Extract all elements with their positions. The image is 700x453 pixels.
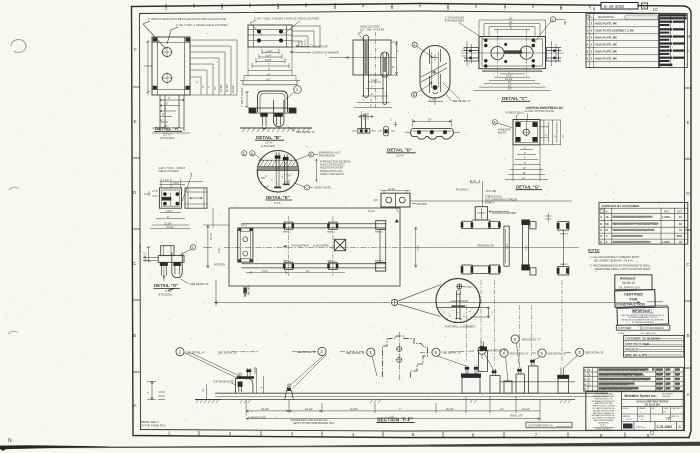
triangle pointer — [395, 219, 399, 222]
svg-text:Metraflex Hyster Inc.: Metraflex Hyster Inc. — [625, 394, 657, 398]
svg-text:1/2"=1": 1/2"=1" — [163, 133, 172, 137]
dim row 1 — [246, 396, 540, 421]
svg-text:3": 3" — [524, 147, 526, 150]
svg-text:DETAIL "B": DETAIL "B" — [256, 135, 281, 140]
svg-text:8: 8 — [600, 433, 603, 438]
svg-text:1-1/4"-7 UNC- 2 HOLES, FIELD L: 1-1/4"-7 UNC- 2 HOLES, FIELD LOCATED — [176, 23, 227, 27]
svg-text:GIL BLAS DIV.: GIL BLAS DIV. — [645, 403, 661, 406]
important stamp — [617, 307, 669, 325]
svg-text:1/2: 1/2 — [203, 388, 205, 392]
big circle — [257, 151, 299, 193]
side dims — [467, 41, 472, 66]
left bolt — [162, 262, 167, 275]
left end plate — [238, 228, 253, 262]
callout B — [412, 92, 417, 97]
leader to note — [443, 83, 460, 100]
svg-text:B: B — [686, 333, 689, 338]
svg-text:5: 5 — [587, 49, 589, 53]
svg-text:R-1 GANG DIV.: R-1 GANG DIV. — [641, 332, 657, 335]
stacked dims in column — [152, 99, 190, 133]
svg-text:NUT: NUT — [468, 286, 473, 289]
svg-text:B: B — [413, 93, 416, 97]
middle single bolt — [383, 126, 388, 136]
svg-text:14": 14" — [267, 74, 271, 77]
small circle below nut — [456, 290, 460, 294]
svg-text:BE UNDER TENSION. ( 75 # A.): BE UNDER TENSION. ( 75 # A.) — [595, 258, 634, 262]
svg-text:11": 11" — [160, 119, 164, 122]
svg-text:10": 10" — [213, 86, 217, 90]
svg-text:4": 4" — [201, 86, 205, 88]
dims below — [474, 74, 550, 91]
svg-text:DIVISION: DIVISION — [662, 396, 671, 398]
svg-text:7: 7 — [535, 433, 538, 438]
left tab — [464, 48, 479, 62]
svg-text:CERTIFIED: CERTIFIED — [624, 293, 643, 297]
svg-text:9": 9" — [162, 114, 164, 117]
svg-text:SMALL LIFT: SMALL LIFT — [510, 414, 523, 417]
svg-text:B: B — [585, 379, 587, 382]
svg-text:E: E — [686, 120, 689, 125]
svg-text:R.C.: R.C. — [264, 186, 269, 189]
svg-text:E: E — [243, 152, 246, 156]
parts list table top right — [586, 14, 660, 68]
svg-text:DETAIL "E": DETAIL "E" — [266, 195, 290, 200]
svg-text:2: 2 — [591, 22, 593, 26]
callout A — [412, 42, 417, 47]
svg-text:2-1/2": 2-1/2" — [144, 252, 147, 258]
right vertical dims of saddle — [257, 368, 264, 393]
P2 tall post — [479, 351, 488, 372]
customer info box — [624, 335, 684, 357]
svg-text:1-1/2": 1-1/2" — [429, 99, 436, 102]
svg-text:SEE DETAIL "B": SEE DETAIL "B" — [297, 350, 316, 354]
anchor bolts — [276, 153, 279, 171]
svg-text:1/2"=1": 1/2"=1" — [265, 141, 273, 145]
svg-text:MK 3: MK 3 — [507, 243, 509, 249]
svg-text:N.T.S.: N.T.S. — [274, 201, 281, 205]
svg-text:8": 8" — [370, 105, 372, 108]
svg-text:C: C — [679, 425, 682, 429]
svg-text:B: B — [600, 223, 602, 226]
svg-text:PRESS / WELD 1: PRESS / WELD 1 — [141, 422, 160, 424]
svg-text:SCALE: SCALE — [623, 407, 630, 410]
svg-text:MARK 2: MARK 2 — [327, 259, 336, 262]
plate — [353, 40, 391, 75]
svg-text:2: 2 — [587, 29, 589, 33]
callouts right group — [432, 348, 440, 356]
svg-text:BY DESIGN ENGINEERS: BY DESIGN ENGINEERS — [632, 322, 655, 324]
svg-text:5-1/4": 5-1/4" — [265, 59, 272, 62]
svg-text:12-1/4": 12-1/4" — [164, 222, 172, 225]
P3 — [490, 376, 500, 394]
svg-text:2-1/2": 2-1/2" — [266, 50, 273, 53]
svg-text:MARK 4: MARK 4 — [485, 202, 495, 205]
plate body — [479, 37, 546, 69]
svg-text:FOUNDATION: FOUNDATION — [292, 243, 309, 247]
cone leader lines — [398, 285, 442, 317]
svg-text:3-1/4: 3-1/4 — [471, 181, 477, 183]
svg-text:SUGGESTED PLACE WITHIN FOR: SUGGESTED PLACE WITHIN FOR — [291, 419, 328, 422]
supplies table — [599, 202, 688, 244]
svg-text:1" PLT: 1" PLT — [139, 244, 142, 252]
svg-text:PAD ANCHOR: PAD ANCHOR — [319, 154, 335, 157]
bottom dim — [428, 97, 443, 105]
svg-text:CUSTOMER: CUSTOMER — [618, 328, 631, 330]
svg-text:44: 44 — [679, 229, 682, 232]
top stamp E-49-3092 — [601, 3, 648, 10]
machine phantom outline — [383, 336, 428, 378]
svg-text:5-3/4: 5-3/4 — [218, 247, 221, 253]
clamp body — [161, 246, 174, 256]
svg-text:SEE DETAIL "A": SEE DETAIL "A" — [186, 350, 205, 354]
stacked dims below plate — [248, 49, 292, 71]
svg-text:7: 7 — [504, 6, 507, 11]
svg-text:1" GROUT HOLE MUST BE FILLED F: 1" GROUT HOLE MUST BE FILLED FLUSH WITH … — [148, 17, 226, 21]
svg-text:(4 PLACES): (4 PLACES) — [261, 144, 275, 148]
centerlines — [461, 52, 564, 54]
svg-text:15-1/4": 15-1/4" — [166, 226, 174, 229]
grout dim left — [245, 91, 249, 108]
svg-text:17": 17" — [522, 177, 526, 180]
customer dwg box — [526, 422, 572, 428]
svg-text:MARK 2: MARK 2 — [327, 230, 336, 233]
svg-text:HOLD PLATE, MK: HOLD PLATE, MK — [595, 35, 617, 39]
svg-text:3": 3" — [397, 50, 400, 52]
svg-text:DETAIL "O": DETAIL "O" — [154, 283, 178, 288]
svg-text:3: 3 — [587, 35, 589, 39]
bottom small dim — [359, 116, 374, 118]
svg-text:DESIGN: DESIGN — [623, 416, 631, 418]
bolt dots — [469, 39, 556, 68]
stacked dims below — [354, 82, 392, 108]
svg-text:FOR DRILL ALIGNMENT: FOR DRILL ALIGNMENT — [445, 324, 476, 328]
svg-text:3": 3" — [553, 50, 556, 52]
callout 1 — [367, 348, 375, 356]
svg-text:1/2" - DIA - 4 HOLES: 1/2" - DIA - 4 HOLES — [360, 28, 385, 32]
svg-text:1: 1 — [168, 431, 171, 436]
plate — [513, 120, 540, 145]
svg-text:D: D — [600, 235, 602, 238]
side elevation — [185, 188, 207, 208]
svg-text:D: D — [133, 190, 137, 195]
top nut — [457, 284, 462, 289]
svg-text:8: 8 — [560, 6, 563, 11]
svg-text:E: E — [133, 119, 136, 124]
left dim cluster — [147, 381, 156, 400]
svg-text:6: 6 — [472, 432, 475, 437]
svg-text:3": 3" — [547, 134, 549, 136]
dims below — [152, 213, 189, 225]
top cross — [432, 54, 439, 61]
svg-text:NOTES:: NOTES: — [588, 249, 600, 253]
bottom row — [634, 422, 677, 431]
svg-text:3: 3 — [589, 374, 591, 377]
svg-text:SPEC NO. A-1756: SPEC NO. A-1756 — [625, 353, 648, 357]
svg-text:IMPORTANT!: IMPORTANT! — [632, 309, 652, 313]
svg-text:C.E.L.: C.E.L. — [600, 425, 607, 428]
svg-text:No.: No. — [642, 427, 646, 429]
horiz centerline — [346, 57, 396, 59]
callout C — [304, 185, 309, 190]
callout B right — [309, 152, 314, 157]
long base rail — [215, 393, 608, 399]
bottom bolt blob — [433, 85, 438, 90]
right text block — [316, 159, 318, 182]
inner shaft lines — [430, 49, 441, 93]
svg-text:1/2"=1": 1/2"=1" — [626, 419, 632, 421]
anchor bolt callout below plan-left — [244, 286, 246, 297]
dims inside bottom — [246, 272, 345, 274]
svg-text:7": 7" — [399, 408, 401, 411]
svg-text:6: 6 — [192, 246, 194, 250]
top line to table — [410, 200, 572, 202]
svg-text:MK 2: MK 2 — [565, 18, 567, 24]
svg-text:16-1/2": 16-1/2" — [522, 408, 530, 411]
punch hole top — [11, 40, 26, 53]
svg-text:A: A — [686, 392, 690, 397]
cross marks in holes — [493, 48, 531, 58]
svg-text:1: 1 — [585, 374, 587, 377]
svg-text:½ GROUT PLUG: ½ GROUT PLUG — [505, 111, 524, 115]
svg-text:C: C — [306, 186, 309, 190]
callout A — [492, 120, 497, 125]
bottom dims — [505, 145, 548, 181]
anchor bolt — [457, 293, 460, 320]
plate plan — [159, 188, 181, 208]
released stamp — [615, 275, 652, 290]
punch hole lower — [8, 331, 18, 334]
svg-text:2: 2 — [178, 350, 181, 355]
svg-text:A: A — [413, 43, 416, 47]
svg-text:GROUT PLATE: GROUT PLATE — [314, 187, 331, 190]
break diagonals — [421, 63, 447, 82]
bolt marks — [153, 38, 157, 41]
svg-text:No.: No. — [605, 210, 609, 213]
svg-text:MARK 5: MARK 5 — [560, 263, 569, 266]
svg-text:3-1/2": 3-1/2" — [173, 182, 179, 185]
svg-text:12": 12" — [563, 134, 565, 138]
svg-text:6": 6" — [392, 66, 395, 68]
svg-text:1": 1" — [361, 111, 363, 114]
svg-text:16: 16 — [606, 216, 609, 219]
svg-text:(TENSION UP): (TENSION UP) — [477, 245, 494, 248]
top zone ticks — [166, 3, 590, 9]
svg-text:DETAIL "G": DETAIL "G" — [516, 185, 540, 190]
svg-text:D: D — [686, 191, 690, 196]
side view T — [362, 117, 366, 129]
corner bolts — [516, 122, 521, 127]
svg-text:(2 PLACES): (2 PLACES) — [158, 293, 172, 296]
svg-text:3-1/2": 3-1/2" — [166, 210, 172, 213]
title rows — [622, 406, 684, 408]
svg-text:JD: JD — [641, 419, 644, 421]
svg-text:FOR: FOR — [630, 297, 638, 301]
svg-text:6: 6 — [447, 5, 450, 10]
center circle — [523, 129, 529, 135]
ground line chord — [437, 306, 478, 308]
rails — [241, 224, 385, 268]
page bottom edge shadow band — [0, 442, 700, 449]
svg-text:2": 2" — [390, 119, 392, 122]
vertical dim right of block — [414, 227, 417, 268]
svg-text:10-1/2: 10-1/2 — [368, 211, 375, 213]
projection lines down — [244, 47, 296, 80]
right end pads — [376, 221, 386, 230]
svg-text:1-1/4"-7 UNC- 2 HOLES ± IN PLC: 1-1/4"-7 UNC- 2 HOLES ± IN PLCS, FIELD L… — [254, 17, 319, 21]
svg-text:UNIT: UNIT — [677, 211, 683, 213]
svg-text:DESCRIPTION: DESCRIPTION — [598, 17, 614, 19]
svg-text:GIL SPRING DIV.: GIL SPRING DIV. — [619, 286, 641, 290]
svg-text:4: 4 — [643, 4, 646, 9]
svg-text:F: F — [134, 47, 137, 52]
svg-text:SAFETY AND GROUT.: SAFETY AND GROUT. — [320, 173, 345, 176]
grout hole upper — [162, 47, 171, 56]
svg-text:3: 3 — [277, 5, 280, 10]
svg-text:REQ: REQ — [664, 211, 669, 213]
svg-text:FIELD LOCATED: FIELD LOCATED — [159, 169, 179, 173]
svg-text:2: 2 — [591, 49, 593, 53]
svg-text:5: 5 — [412, 432, 415, 437]
svg-text:A: A — [600, 216, 602, 219]
svg-text:1-1/4": 1-1/4" — [371, 79, 378, 82]
svg-text:4: 4 — [352, 432, 355, 437]
svg-text:44: 44 — [605, 229, 608, 232]
svg-text:11": 11" — [523, 167, 526, 170]
svg-text:14": 14" — [523, 172, 527, 175]
top plate — [248, 25, 292, 47]
svg-text:1: 1 — [591, 42, 593, 46]
svg-text:36-1/2": 36-1/2" — [446, 408, 454, 411]
svg-text:2: 2 — [221, 5, 224, 10]
svg-text:2: 2 — [591, 29, 593, 33]
svg-text:1: 1 — [587, 22, 589, 26]
svg-text:5": 5" — [524, 152, 526, 155]
svg-text:2- RECOMMENDED ELECTROMAGNETIC: 2- RECOMMENDED ELECTROMAGNETIC DRILL — [590, 264, 651, 268]
svg-text:B: B — [310, 153, 313, 157]
svg-text:B: B — [133, 333, 136, 338]
dims above — [479, 20, 546, 37]
svg-text:3: 3 — [320, 349, 323, 354]
svg-text:DRAWN: DRAWN — [639, 407, 647, 410]
svg-text:1-2040: 1-2040 — [662, 216, 670, 219]
svg-text:1: 1 — [589, 383, 591, 386]
centerline right — [404, 246, 579, 248]
svg-text:4: 4 — [147, 391, 150, 393]
svg-text:4: 4 — [591, 35, 593, 39]
svg-text:33-1/4": 33-1/4" — [261, 408, 269, 411]
svg-text:4: 4 — [334, 5, 337, 10]
svg-text:A: A — [585, 383, 587, 386]
left bolt — [263, 113, 267, 126]
svg-text:3: 3 — [291, 431, 294, 436]
svg-text:MARK 4: MARK 4 — [375, 259, 384, 262]
svg-text:HOLD PLATE, MK: HOLD PLATE, MK — [595, 49, 617, 53]
long bar — [413, 128, 452, 130]
svg-text:4: 4 — [587, 42, 589, 46]
svg-text:9: 9 — [593, 6, 596, 11]
svg-text:3: 3 — [491, 312, 493, 315]
svg-text:HOLD PLATE, MK: HOLD PLATE, MK — [595, 22, 617, 26]
svg-text:7": 7" — [524, 157, 526, 160]
svg-text:3-1/4": 3-1/4" — [265, 54, 272, 57]
certified stamp — [615, 290, 656, 308]
svg-text:MILWAUKEE #4203-1 WITH SUPPORT: MILWAUKEE #4203-1 WITH SUPPORT #4203 — [595, 267, 651, 271]
svg-text:3: 3 — [578, 350, 581, 355]
svg-text:5: 5 — [434, 350, 437, 355]
washer plate — [452, 305, 466, 307]
svg-text:DETAIL "A": DETAIL "A" — [155, 126, 180, 131]
inner border — [140, 11, 685, 431]
left vert dim — [147, 246, 151, 262]
svg-text:TYP 4: TYP 4 — [241, 226, 248, 228]
lower column — [160, 95, 184, 131]
svg-text:POSITION: POSITION — [214, 265, 225, 267]
svg-text:MJI: MJI — [652, 408, 656, 410]
svg-text:A: A — [251, 152, 254, 156]
P4 — [504, 381, 512, 393]
svg-text:BOLTS: BOLTS — [498, 132, 506, 135]
svg-text:5": 5" — [166, 103, 168, 106]
svg-text:FOR ANCHORS: FOR ANCHORS — [445, 19, 464, 23]
svg-text:1" MIN 2" GROUT: 1" MIN 2" GROUT — [241, 87, 244, 107]
svg-text:SEE DETAIL "F": SEE DETAIL "F" — [452, 99, 471, 103]
center dashed line — [224, 246, 404, 248]
svg-text:2: 2 — [591, 56, 593, 60]
P5 — [516, 374, 525, 393]
svg-text:7-1/2: 7-1/2 — [417, 245, 420, 251]
svg-text:SEE DETAIL "B": SEE DETAIL "B" — [442, 351, 461, 355]
svg-text:7": 7" — [268, 63, 270, 66]
concrete speckle — [261, 174, 292, 189]
right revision bars column — [659, 14, 688, 68]
horizontal dims to left — [143, 257, 158, 260]
svg-text:5: 5 — [391, 5, 394, 10]
left small dims — [149, 191, 158, 196]
svg-text:CONTACT & WASHER: CONTACT & WASHER — [312, 51, 339, 55]
svg-text:5: 5 — [540, 351, 543, 356]
svg-text:1: 1 — [369, 350, 372, 355]
svg-text:SEE DETAIL "B": SEE DETAIL "B" — [548, 351, 567, 355]
svg-text:DWG: DWG — [636, 427, 642, 429]
bolts — [257, 30, 261, 34]
svg-text:FLUSH ON HOLD PLATE: FLUSH ON HOLD PLATE — [525, 110, 554, 113]
svg-text:MARK 5: MARK 5 — [560, 233, 569, 236]
dim row 2 — [246, 418, 540, 420]
hatch groups under rail — [240, 400, 571, 404]
svg-text:SEE DETAIL "G": SEE DETAIL "G" — [510, 351, 529, 355]
svg-text:C: C — [585, 369, 587, 372]
svg-text:DATE: DATE — [664, 407, 670, 410]
right U-bolt capsule — [274, 100, 284, 127]
svg-text:R.C.: R.C. — [261, 177, 266, 180]
svg-text:FORM 102 REV. B: FORM 102 REV. B — [596, 429, 613, 431]
left slot bar — [364, 38, 369, 96]
svg-text:31": 31" — [500, 408, 504, 411]
svg-text:C-01-3092: C-01-3092 — [657, 425, 673, 429]
left disclaimer cell — [592, 393, 616, 428]
svg-text:6: 6 — [514, 337, 517, 342]
svg-text:MARK 4: MARK 4 — [375, 231, 384, 234]
svg-text:SEE DETAIL "O": SEE DETAIL "O" — [522, 337, 541, 341]
svg-text:C: C — [133, 261, 137, 266]
anchor bracket mid — [285, 391, 294, 400]
svg-text:0: 0 — [585, 388, 587, 391]
svg-text:4: 4 — [262, 386, 264, 388]
svg-text:7": 7" — [207, 86, 211, 88]
right dims — [540, 120, 561, 145]
svg-text:2-1/2": 2-1/2" — [144, 193, 150, 196]
svg-text:HOLD PLATE, MK: HOLD PLATE, MK — [595, 56, 617, 60]
